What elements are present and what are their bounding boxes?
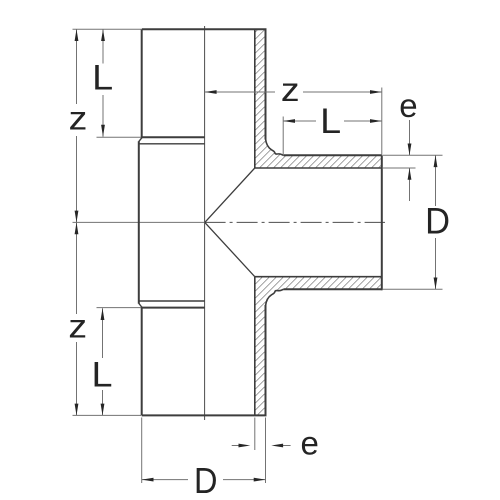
extension: branch outer top to right (e and D) (383, 154, 443, 156)
vertical centerline (204, 26, 206, 420)
dim D bottom: line (142, 479, 188, 481)
dim e top-right: arrows (408, 144, 412, 156)
dim z left-bottom: arrows (75, 222, 79, 234)
pipe bottom edge (142, 414, 267, 416)
svg-text:z: z (68, 308, 87, 345)
run inner wall upper (254, 29, 256, 168)
dim L top: arrows (283, 119, 295, 123)
bottom edge extension (left) (73, 414, 142, 416)
right outer wall, upper (265, 29, 267, 139)
svg-text:L: L (92, 355, 113, 394)
extension: branch inner top to right (e) (383, 167, 416, 169)
dim z top: line (205, 91, 275, 93)
crotch diagonal upper (205, 168, 255, 222)
socket step line top (thin) (139, 143, 205, 145)
left edge chamfer, body to bottom socket (139, 303, 142, 307)
extension: run wall outer below (e & D bottom) (265, 418, 267, 484)
svg-text:L: L (320, 102, 341, 141)
dim e top-right: lines (409, 120, 411, 155)
branch mouth face (381, 155, 383, 290)
socket depth line top (thick) (141, 136, 205, 138)
branch inner bottom edge (255, 276, 382, 278)
dim z top: arrows (205, 90, 217, 94)
dim e bottom: lines (232, 445, 240, 447)
horizontal centerline (dash-dot to the right) (205, 221, 385, 223)
dim z left-bottom: line (76, 222, 78, 314)
left outer edge, bottom socket (141, 307, 143, 416)
extension: branch outer bottom to right (D) (383, 288, 443, 290)
left outer edge, top socket (141, 29, 143, 138)
svg-text:z: z (281, 71, 300, 108)
svg-text:e: e (301, 424, 319, 461)
dim D right: line (435, 155, 437, 206)
extension: top L left (97, 136, 142, 138)
svg-text:D: D (194, 460, 218, 500)
hatched section: bottom-right wall of tee (255, 277, 382, 416)
extension: bottom L left (97, 307, 142, 309)
svg-text:L: L (92, 59, 113, 98)
dim e bottom: arrows (239, 444, 251, 448)
top edge extension (left) (73, 28, 142, 30)
crotch diagonal lower (205, 222, 255, 276)
dim D bottom: arrows (142, 478, 154, 482)
svg-text:e: e (399, 87, 417, 124)
hatched section: top-right wall of tee (255, 29, 382, 168)
horizontal centerline extension (left, to z dims) (73, 221, 205, 223)
socket step line bottom (thin) (139, 300, 205, 302)
branch outer bottom edge (283, 288, 381, 290)
dim z left-top: arrows (75, 29, 79, 41)
extension: mouth face upward (for z & L dims) (381, 88, 383, 156)
dim D right: arrows (434, 155, 438, 167)
outer fillet+bead transition bottom (266, 289, 284, 306)
extension: run left edge below (D bottom) (141, 418, 143, 484)
dim L top: line (283, 120, 316, 122)
left edge chamfer, top socket to body (139, 138, 142, 142)
body left edge (bulge) (138, 141, 140, 303)
svg-text:z: z (69, 100, 88, 137)
branch inner top edge (255, 167, 382, 169)
right outer wall, lower (265, 305, 267, 415)
dim L left-bottom: line (102, 308, 104, 358)
branch outer top edge (283, 154, 381, 156)
dim L left-bottom: arrows (101, 308, 105, 320)
extension: branch L start (282, 117, 284, 155)
extension: run wall inner below (e bottom) (254, 418, 256, 451)
dim L left-top: arrows (101, 29, 105, 41)
socket depth line bottom (thick) (141, 307, 205, 309)
dim z left-top: line (76, 29, 78, 104)
outer fillet+bead transition top (266, 139, 284, 156)
svg-text:D: D (425, 200, 450, 241)
run inner wall lower (254, 277, 256, 416)
pipe top edge (142, 28, 267, 30)
dim L left-top: line (102, 29, 104, 63)
